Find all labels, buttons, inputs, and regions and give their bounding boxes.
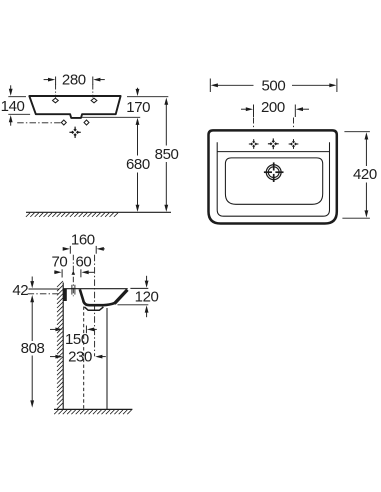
extension/ledge line (170 bottom) xyxy=(81,116,140,118)
floor line xyxy=(26,211,171,213)
faucet hole symbol left xyxy=(249,139,259,149)
SECTION VIEW BOTTOM xyxy=(12,231,158,414)
basin section: top surface line xyxy=(63,288,128,290)
dimension 230 xyxy=(50,348,106,365)
basin rim contour xyxy=(217,142,329,216)
wall face line xyxy=(62,283,64,410)
svg-text:500: 500 xyxy=(261,77,285,94)
svg-text:230: 230 xyxy=(68,348,92,365)
rim back line xyxy=(217,151,329,153)
fixing diamond left xyxy=(61,120,66,125)
floor line xyxy=(54,408,132,410)
svg-text:150: 150 xyxy=(65,331,89,348)
FRONT VIEW TOP RIGHT xyxy=(209,77,377,223)
dimension 850 xyxy=(155,98,179,212)
svg-text:170: 170 xyxy=(126,99,150,116)
SIDE VIEW TOP LEFT xyxy=(1,72,179,217)
dimension 120 xyxy=(118,276,159,317)
hole centerline upper xyxy=(72,255,74,296)
basin section: front apron xyxy=(114,290,127,304)
svg-text:850: 850 xyxy=(155,146,179,163)
basin section: faucet hole walls xyxy=(71,285,73,295)
wall hatching xyxy=(57,281,63,409)
dimension 150 xyxy=(50,326,97,348)
svg-text:680: 680 xyxy=(126,156,150,173)
dimension 808 xyxy=(21,302,45,408)
svg-text:160: 160 xyxy=(71,231,95,248)
faucet hole symbol middle xyxy=(268,138,279,149)
centerline right hole xyxy=(92,85,94,98)
drain symbol xyxy=(264,162,284,182)
svg-text:140: 140 xyxy=(1,98,25,115)
svg-text:280: 280 xyxy=(62,72,86,89)
svg-text:42: 42 xyxy=(12,282,28,299)
dimension 170 xyxy=(126,88,150,116)
dimension 200 xyxy=(241,99,309,117)
basin section: bowl profile xyxy=(80,289,115,305)
pedestal front line xyxy=(106,308,108,409)
svg-text:60: 60 xyxy=(75,254,91,271)
dimension 680 xyxy=(126,118,150,212)
svg-text:420: 420 xyxy=(353,166,377,183)
dimension 160 xyxy=(63,231,105,253)
basin section: wall flange (filled) xyxy=(63,289,66,301)
faucet hole marker right (top surface) xyxy=(91,98,97,103)
dimension 500 xyxy=(210,77,337,94)
floor hatching bottom xyxy=(54,410,131,414)
basin section: drain trap xyxy=(84,307,103,310)
centerline to right hole xyxy=(293,118,295,140)
drain centerline xyxy=(94,255,96,356)
dimension 140 xyxy=(1,85,30,125)
fixing diamond right xyxy=(84,120,89,125)
dimension 420 xyxy=(342,132,376,219)
faucet hole marker left (top surface) xyxy=(53,98,59,103)
dimension 280 xyxy=(44,72,105,89)
floor hatching xyxy=(26,213,118,217)
drain crosshair symbol xyxy=(69,127,80,138)
dimension 42 xyxy=(12,277,58,303)
svg-text:70: 70 xyxy=(51,254,67,271)
dimension row 70/60 xyxy=(54,269,94,277)
svg-text:120: 120 xyxy=(135,289,159,306)
centerline left hole xyxy=(55,85,57,98)
pedestal center dashed line xyxy=(83,307,85,410)
fixing axis dash-dot xyxy=(17,122,60,124)
centerline to left hole xyxy=(253,118,255,140)
extension line top right (850) xyxy=(127,96,168,98)
svg-text:200: 200 xyxy=(261,99,285,116)
hole axis dash-dot horizontal xyxy=(28,293,61,295)
inner bowl outline xyxy=(225,158,322,204)
basin outer outline xyxy=(209,130,337,223)
svg-text:808: 808 xyxy=(21,340,45,357)
basin side outline xyxy=(29,96,120,118)
faucet hole symbol right xyxy=(289,139,299,149)
